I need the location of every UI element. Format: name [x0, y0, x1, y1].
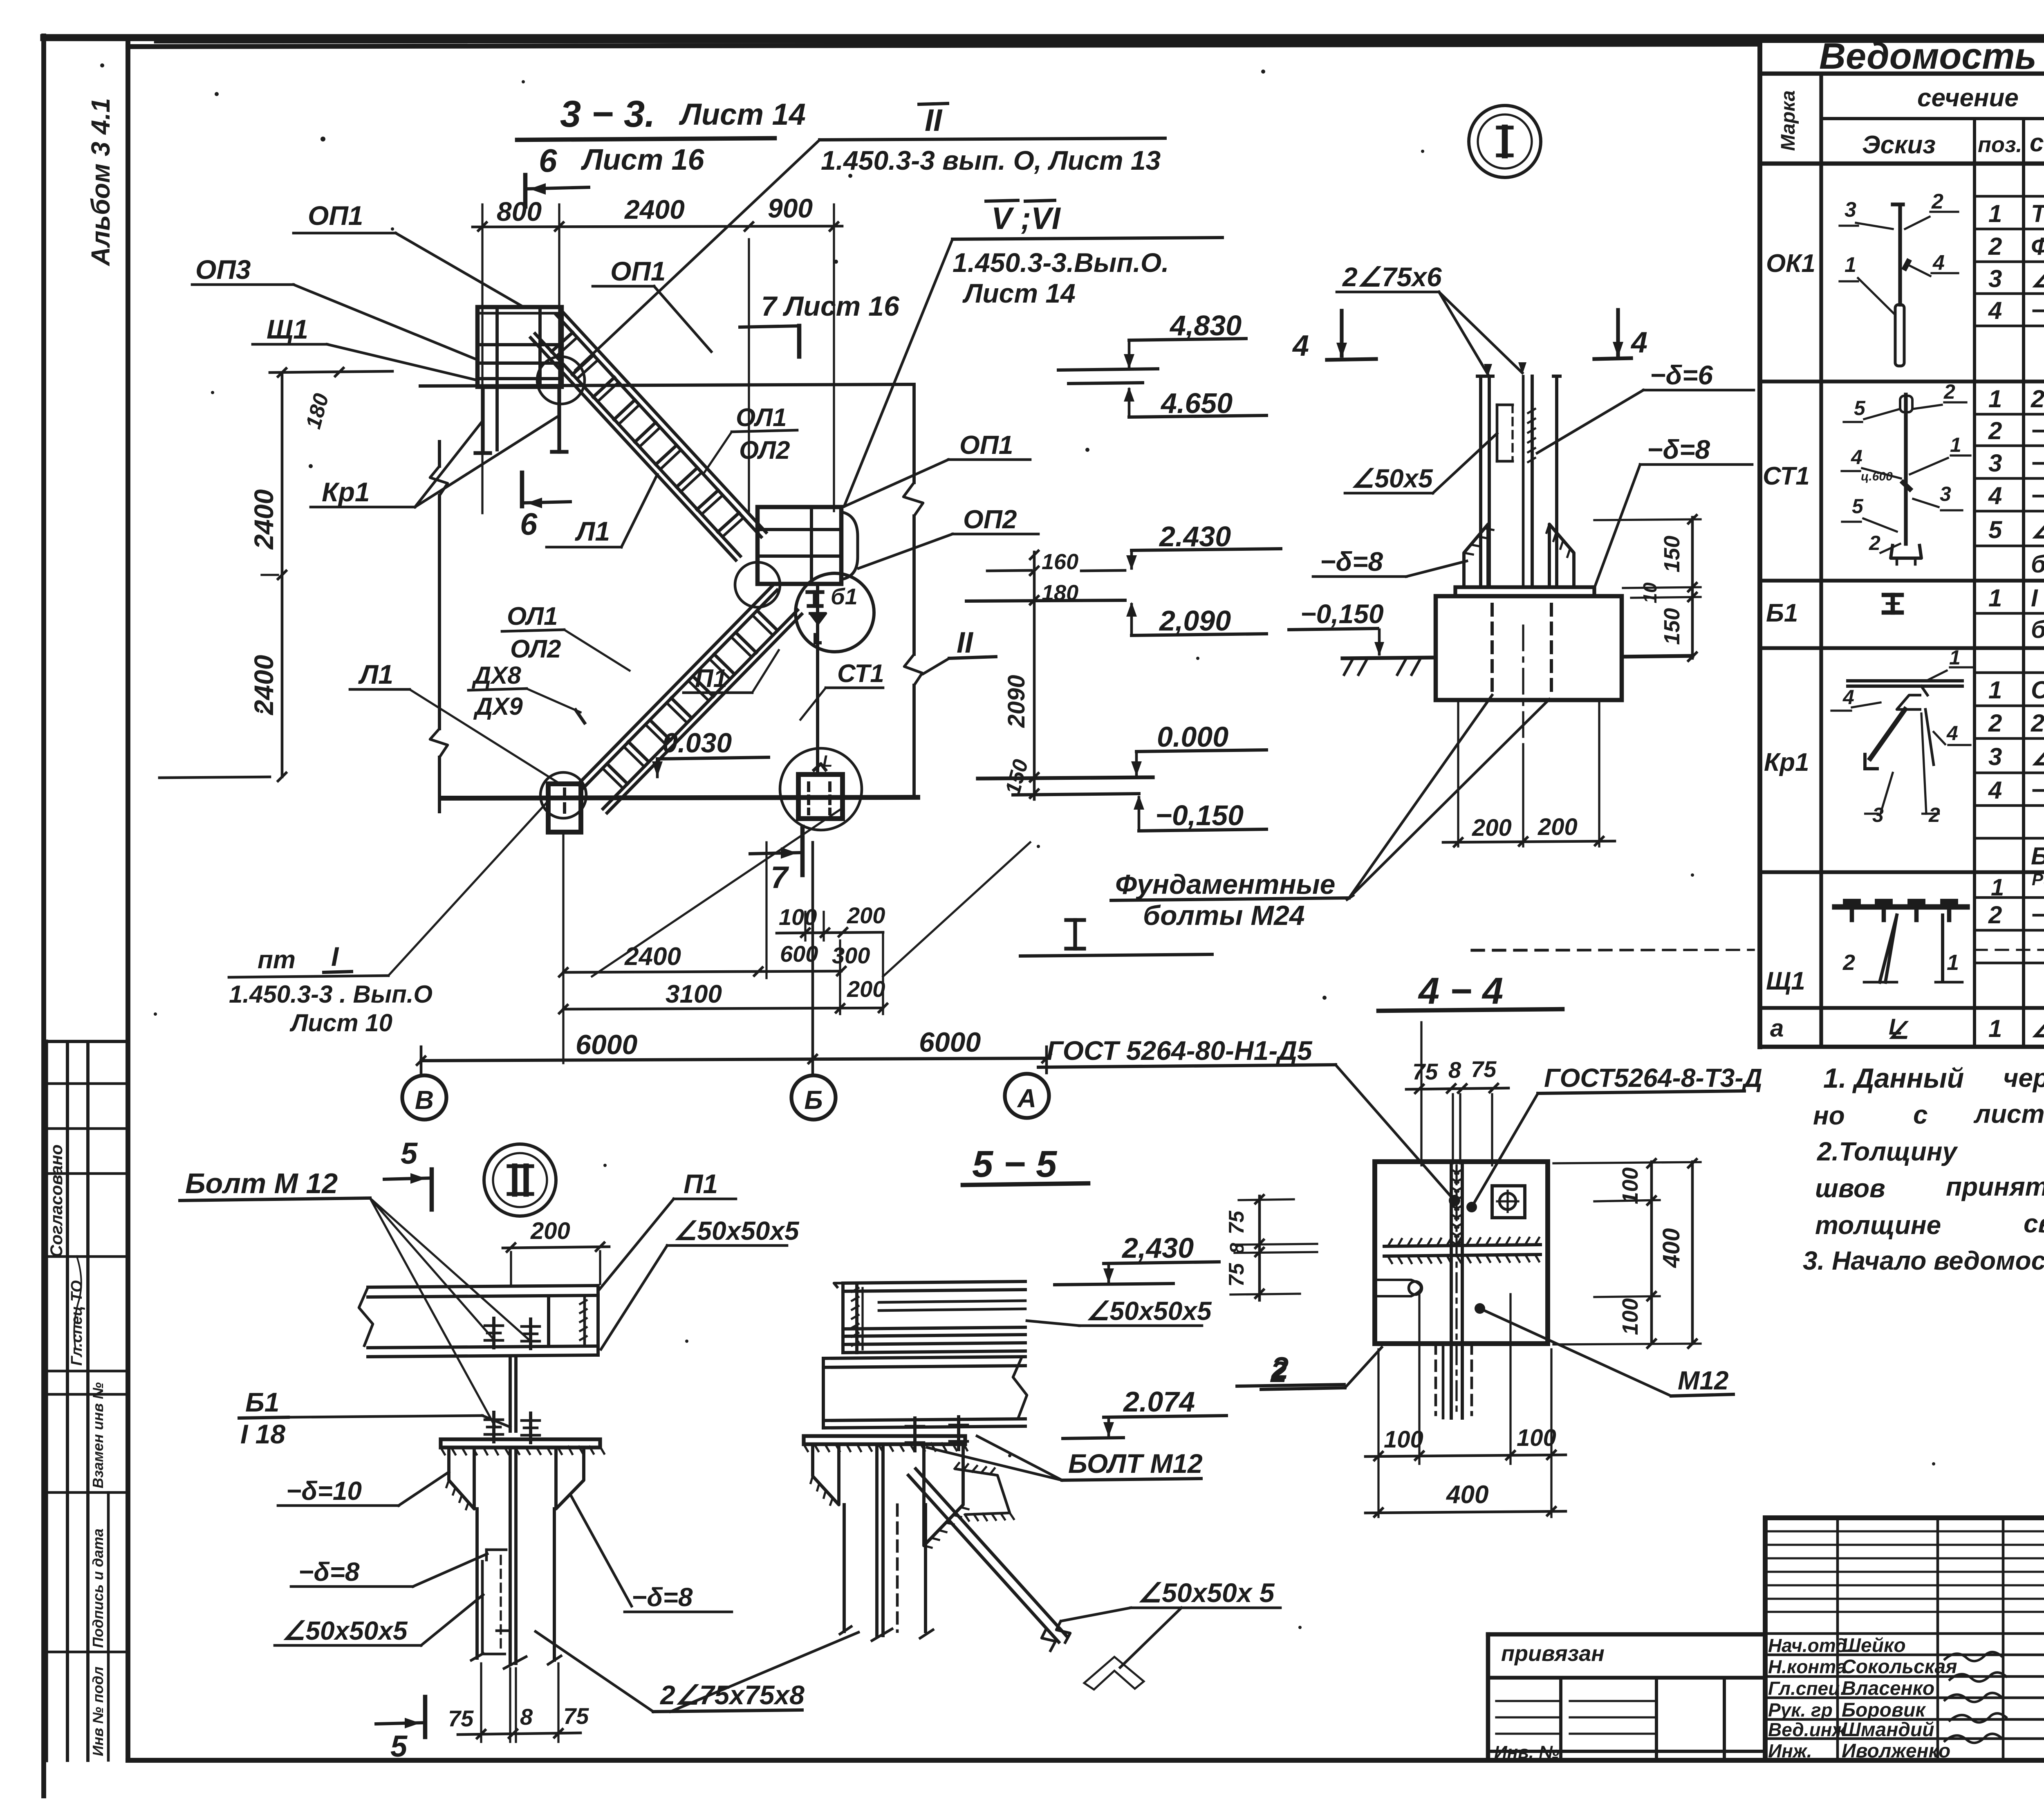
svg-text:1. Данный: 1. Данный — [1823, 1063, 1964, 1094]
svg-text:6: 6 — [539, 142, 557, 179]
svg-text:ГОСТ 5264-80-Н1-Д5: ГОСТ 5264-80-Н1-Д5 — [1047, 1035, 1313, 1066]
svg-text:Инж.: Инж. — [1768, 1740, 1812, 1762]
svg-text:−4х40: −4х40 — [2031, 297, 2044, 324]
svg-text:2400: 2400 — [249, 655, 279, 716]
top dimension row 800 2400 900 — [473, 226, 842, 227]
svg-text:2090: 2090 — [1003, 675, 1030, 728]
svg-text:Лист 10: Лист 10 — [289, 1009, 392, 1037]
svg-text:∠: ∠ — [1888, 1017, 1909, 1044]
svg-text:10: 10 — [1639, 582, 1661, 604]
svg-text:Альбом 3 4.1: Альбом 3 4.1 — [86, 98, 115, 267]
base plate section II — [441, 1439, 600, 1447]
svg-text:800: 800 — [497, 196, 542, 227]
svg-text:Власенко: Власенко — [1842, 1678, 1934, 1699]
sketch СТ1 — [1904, 395, 1907, 544]
svg-text:принять: принять — [1946, 1172, 2044, 1201]
header column lines — [1819, 74, 1823, 1047]
svg-text:3: 3 — [1845, 198, 1856, 222]
base plate 5-5 — [804, 1436, 965, 1444]
level line upper — [420, 384, 914, 386]
svg-text:Тр.Ду20: Тр.Ду20 — [2031, 200, 2044, 227]
svg-text:4,830: 4,830 — [1169, 310, 1242, 341]
leader II to platform — [576, 140, 820, 370]
svg-text:II: II — [957, 626, 974, 659]
svg-text:8: 8 — [1448, 1057, 1461, 1083]
svg-text:ОП1: ОП1 — [610, 256, 666, 286]
svg-text:0.000: 0.000 — [1157, 721, 1228, 753]
svg-text:В: В — [415, 1085, 434, 1115]
svg-text:СТ1: СТ1 — [1763, 462, 1810, 490]
svg-text:С 18: С 18 — [2031, 676, 2044, 704]
diagonal brace 5-5 — [908, 1475, 1059, 1642]
svg-text:4 − 4: 4 − 4 — [1418, 970, 1503, 1012]
section flag 6 top — [523, 175, 528, 206]
leaders to anchor bolts — [1349, 695, 1492, 898]
stair flight Л1 upper — [561, 310, 766, 532]
svg-text:2: 2 — [1842, 950, 1855, 975]
ground line plan — [442, 797, 918, 798]
svg-text:Сокольская: Сокольская — [1842, 1656, 1957, 1678]
scan outer border left — [41, 36, 46, 1796]
sheet inner frame — [128, 44, 1760, 47]
4-4 bottom dims — [1377, 1349, 1379, 1517]
left margin strip — [66, 1041, 69, 1760]
svg-text:ГОСТ5264-8-Т3-Д: ГОСТ5264-8-Т3-Д — [1544, 1063, 1762, 1093]
привязан table — [1488, 1632, 1765, 1637]
svg-text:ОП1: ОП1 — [959, 430, 1013, 460]
svg-text:2,090: 2,090 — [1159, 605, 1231, 637]
svg-text:100: 100 — [1517, 1425, 1556, 1451]
svg-text:I 18: I 18 — [240, 1419, 285, 1449]
svg-text:1: 1 — [1988, 1015, 2002, 1042]
gussets section II — [449, 1447, 474, 1509]
svg-text:L: L — [823, 752, 832, 770]
svg-text:Нач.отд.: Нач.отд. — [1768, 1635, 1852, 1656]
svg-text:5: 5 — [1854, 397, 1866, 420]
svg-text:200: 200 — [847, 976, 885, 1002]
svg-text:75: 75 — [448, 1706, 474, 1731]
svg-text:∠90х6: ∠90х6 — [2031, 743, 2044, 770]
svg-text:Вед.инж: Вед.инж — [1768, 1719, 1847, 1740]
svg-text:с: с — [1913, 1100, 1928, 1129]
bottom dims 75 8 75 section II — [480, 1663, 482, 1742]
svg-text:Рук. гр: Рук. гр — [1768, 1699, 1833, 1721]
4-4 right dims — [1650, 1162, 1653, 1344]
svg-text:−δ=6: −δ=6 — [1650, 360, 1713, 390]
dim extension verticals — [481, 204, 483, 513]
dashed line to table — [1472, 950, 1754, 951]
svg-text:болт М12: болт М12 — [2031, 616, 2044, 643]
б1 detail circle — [796, 573, 874, 652]
4-4 corner bolt box — [1492, 1186, 1525, 1218]
svg-text:6: 6 — [520, 507, 538, 542]
svg-text:75: 75 — [1225, 1210, 1248, 1234]
svg-text:3: 3 — [1988, 743, 2002, 770]
svg-text:П1: П1 — [684, 1169, 718, 1199]
svg-text:I 18: I 18 — [2031, 584, 2044, 612]
bottom anchor left — [548, 784, 581, 832]
svg-text:А: А — [1017, 1084, 1036, 1113]
svg-text:75: 75 — [1412, 1059, 1438, 1084]
svg-text:4: 4 — [1851, 446, 1862, 469]
svg-text:4: 4 — [1842, 686, 1854, 709]
treads upper flight — [551, 332, 573, 352]
svg-text:2400: 2400 — [624, 194, 685, 224]
svg-text:4: 4 — [1932, 251, 1945, 275]
svg-text:пт: пт — [258, 946, 296, 974]
left break line vertical — [438, 442, 441, 466]
svg-text:1.450.3-3 . Вып.О: 1.450.3-3 . Вып.О — [229, 981, 433, 1008]
weld ticks on column — [1528, 409, 1535, 413]
angle icon — [1084, 1657, 1144, 1690]
column 5-5 — [843, 1505, 846, 1631]
mid landing circle — [735, 562, 780, 607]
svg-text:Л1: Л1 — [575, 516, 610, 546]
svg-text:Болт М 12: Болт М 12 — [185, 1167, 338, 1199]
svg-text:ОЛ2: ОЛ2 — [510, 635, 561, 663]
svg-text:2: 2 — [1988, 901, 2002, 929]
column bottom breaks 5-5 — [839, 1626, 852, 1635]
svg-text:4: 4 — [1988, 482, 2002, 509]
svg-text:3: 3 — [1940, 482, 1951, 505]
ground line section I — [1342, 658, 1436, 658]
svg-text:болт М 12: болт М 12 — [2031, 550, 2044, 578]
svg-text:2: 2 — [1988, 417, 2002, 444]
svg-text:Подпись и дата: Подпись и дата — [90, 1528, 106, 1648]
svg-text:−δ=10: −δ=10 — [286, 1476, 362, 1506]
svg-text:2: 2 — [1271, 1351, 1289, 1386]
svg-text:2.Толщину: 2.Толщину — [1817, 1137, 1959, 1166]
svg-text:Б1: Б1 — [1766, 599, 1798, 627]
svg-text:2: 2 — [1869, 532, 1880, 554]
detail circle I — [1469, 105, 1541, 177]
svg-text:∠50х50х5: ∠50х50х5 — [282, 1616, 408, 1645]
svg-text:ОЛ1: ОЛ1 — [507, 602, 558, 631]
flag 5 bottom — [423, 1697, 428, 1737]
svg-text:300: 300 — [832, 943, 870, 968]
svg-text:∠50х5: ∠50х5 — [2031, 265, 2044, 292]
svg-text:200: 200 — [1472, 815, 1512, 841]
svg-text:−δ=8: −δ=8 — [2031, 776, 2044, 804]
svg-text:Согласовано: Согласовано — [47, 1144, 66, 1257]
svg-text:2,430: 2,430 — [1121, 1232, 1194, 1264]
row divider lines — [1975, 195, 2044, 198]
svg-text:0.030: 0.030 — [662, 727, 732, 759]
svg-text:−0,150: −0,150 — [1155, 799, 1244, 831]
4-4 gusset square — [1375, 1162, 1548, 1344]
svg-text:−δ=8: −δ=8 — [632, 1582, 693, 1612]
scan speckles — [100, 63, 104, 67]
name rows — [1765, 1632, 2044, 1635]
table header split line — [1821, 117, 2044, 120]
section flag 7 — [800, 827, 805, 875]
svg-text:Лист 16: Лист 16 — [580, 144, 705, 176]
svg-text:160: 160 — [1042, 550, 1078, 574]
scan outer border top band — [44, 34, 2044, 41]
svg-text:П1: П1 — [695, 664, 727, 693]
svg-text:2: 2 — [1988, 233, 2002, 260]
dims 200 200 below foundation — [1457, 700, 1459, 846]
svg-text:4: 4 — [1292, 330, 1309, 362]
svg-text:200: 200 — [1537, 814, 1578, 840]
svg-text:болты М24: болты М24 — [1143, 900, 1305, 931]
svg-text:толщине: толщине — [1815, 1210, 1941, 1240]
svg-text:5: 5 — [1852, 495, 1864, 518]
svg-text:ОП2: ОП2 — [963, 505, 1017, 534]
svg-text:−δ =10: −δ =10 — [2031, 417, 2044, 444]
svg-text:−4х40: −4х40 — [2031, 901, 2044, 929]
svg-text:100: 100 — [1618, 1298, 1643, 1335]
small angle on column — [486, 1548, 506, 1551]
svg-text:Гл.спец.: Гл.спец. — [1768, 1678, 1846, 1699]
data column lines — [1973, 164, 1976, 1047]
svg-text:б1: б1 — [831, 583, 858, 609]
svg-text:а: а — [1770, 1014, 1784, 1042]
title block thin top rows — [1765, 1530, 2044, 1532]
svg-text:400: 400 — [1658, 1228, 1685, 1268]
dims 75 8 75 right of 5-5 — [1258, 1196, 1261, 1300]
svg-text:СТ1: СТ1 — [837, 660, 884, 688]
table title underline row — [1760, 72, 2044, 76]
svg-text:100: 100 — [1384, 1426, 1423, 1453]
svg-text:6000: 6000 — [576, 1029, 637, 1060]
svg-text:3. Начало ведомости элементо: 3. Начало ведомости элементов см. лист 1… — [1803, 1246, 2044, 1275]
4-4 vertical post — [1450, 1162, 1453, 1418]
wall break line vertical — [912, 386, 916, 482]
svg-text:листами 14,16.: листами 14,16. — [1973, 1099, 2044, 1129]
treads lower flight — [757, 610, 778, 631]
column section II — [475, 1509, 479, 1658]
gussets section I — [1464, 524, 1488, 587]
svg-text:Гл.спец ТО: Гл.спец ТО — [68, 1280, 85, 1366]
svg-text:но: но — [1813, 1101, 1845, 1130]
svg-text:Лист 14: Лист 14 — [962, 278, 1076, 308]
svg-text:ОП3: ОП3 — [195, 254, 251, 285]
svg-text:400: 400 — [1446, 1481, 1488, 1509]
svg-text:∠50х50х5: ∠50х50х5 — [674, 1216, 800, 1245]
svg-text:200: 200 — [530, 1218, 570, 1244]
sketch Щ1 — [1835, 904, 1967, 909]
svg-text:100: 100 — [1618, 1167, 1643, 1204]
platform beam band 5-5 — [823, 1357, 1025, 1358]
svg-text:∠50х5: ∠50х5 — [2031, 516, 2044, 543]
svg-text:5 − 5: 5 − 5 — [972, 1143, 1058, 1185]
left cap 5-5 — [841, 1283, 845, 1353]
svg-text:V ;VI: V ;VI — [991, 201, 1061, 236]
svg-text:2∠75х6: 2∠75х6 — [1342, 262, 1442, 292]
svg-text:−δ=8: −δ=8 — [298, 1557, 360, 1587]
svg-text:75: 75 — [1225, 1263, 1248, 1287]
svg-text:3100: 3100 — [666, 980, 722, 1008]
sketch КР1 — [1848, 679, 1962, 682]
I-beam web section II — [509, 1356, 512, 1431]
svg-text:1.450.3-3.Вып.О.: 1.450.3-3.Вып.О. — [953, 247, 1169, 278]
svg-text:ОЛ1: ОЛ1 — [736, 404, 787, 432]
axis circle Б — [791, 1075, 836, 1120]
svg-text:2400: 2400 — [624, 943, 681, 971]
svg-text:Фундаментные: Фундаментные — [1115, 869, 1335, 900]
column lines СТ1 detail — [1479, 376, 1482, 587]
svg-text:150: 150 — [1660, 608, 1684, 645]
svg-text:Кр1: Кр1 — [1764, 748, 1809, 776]
gussets 5-5 — [813, 1444, 839, 1505]
dashed row line in Щ1 — [1472, 949, 1754, 951]
svg-text:1: 1 — [1845, 253, 1856, 277]
stringer band 5-5 — [843, 1281, 1025, 1283]
svg-text:2.430: 2.430 — [1159, 521, 1231, 552]
svg-text:состав: состав — [2030, 129, 2044, 157]
stair flight Л1 lower — [578, 586, 773, 784]
svg-text:Болт М12: Болт М12 — [2031, 842, 2044, 870]
svg-text:Инв. №: Инв. № — [1494, 1742, 1560, 1762]
svg-text:ОК1: ОК1 — [1766, 249, 1815, 278]
svg-text:Щ1: Щ1 — [267, 314, 308, 344]
title block left verticals — [1836, 1518, 1839, 1760]
axis circle А — [1005, 1074, 1049, 1118]
svg-text:Кр1: Кр1 — [322, 477, 370, 507]
sketch ОК1 — [1898, 206, 1902, 305]
svg-text:ДХ9: ДХ9 — [473, 693, 523, 720]
leaders from axis area — [388, 801, 548, 976]
svg-text:1: 1 — [1949, 646, 1961, 669]
svg-text:3 − 3.: 3 − 3. — [560, 93, 655, 135]
svg-text:Рифл. ст: Рифл. ст — [2032, 870, 2044, 889]
svg-text:II: II — [925, 103, 943, 138]
svg-text:2: 2 — [1928, 803, 1940, 826]
svg-text:∠50х5: ∠50х5 — [1351, 464, 1433, 493]
mid landing plan — [758, 507, 841, 584]
title block main outline — [1765, 1515, 2044, 1520]
sketch Б1 I-beam — [1884, 593, 1902, 597]
svg-text:∠50х50х5: ∠50х50х5 — [1086, 1296, 1212, 1326]
foundation block — [1436, 596, 1622, 700]
svg-text:2: 2 — [1931, 190, 1943, 213]
svg-text:6000: 6000 — [919, 1027, 981, 1058]
axis circle В — [402, 1075, 446, 1120]
svg-text:1: 1 — [1991, 874, 2004, 901]
table bottom — [1760, 1045, 2044, 1049]
4-4 left hook — [1375, 1280, 1421, 1296]
section divider lines — [1760, 379, 2044, 383]
4-4 bottom post below square — [1434, 1344, 1437, 1415]
svg-text:2∠75х6: 2∠75х6 — [2031, 709, 2044, 737]
svg-text:75: 75 — [1471, 1056, 1497, 1082]
svg-text:БОЛТ М12: БОЛТ М12 — [1068, 1448, 1203, 1479]
svg-text:−δ=8: −δ=8 — [1320, 546, 1383, 577]
table outer verticals — [1757, 39, 1762, 1047]
svg-text:5: 5 — [390, 1729, 408, 1763]
svg-text:100: 100 — [779, 904, 817, 930]
svg-text:М12: М12 — [1678, 1366, 1729, 1395]
svg-text:Щ1: Щ1 — [1766, 967, 1805, 995]
svg-text:свариваемых: свариваемых — [2024, 1209, 2044, 1238]
column bottom breaks — [470, 1653, 484, 1661]
bolts on beam — [492, 1318, 495, 1348]
svg-text:4: 4 — [1946, 722, 1958, 745]
svg-text:200: 200 — [847, 902, 885, 928]
svg-text:−8х100: −8х100 — [2031, 482, 2044, 509]
beam channel section II — [368, 1286, 598, 1287]
svg-text:2∠75х6: 2∠75х6 — [2031, 385, 2044, 413]
platform corner circle — [537, 357, 585, 404]
svg-text:7 Лист 16: 7 Лист 16 — [761, 291, 900, 322]
svg-text:8: 8 — [520, 1704, 533, 1730]
svg-text:5: 5 — [1988, 516, 2003, 543]
svg-text:привязан: привязан — [1501, 1641, 1605, 1666]
base plate section I — [1455, 587, 1594, 596]
svg-text:∠50х50х 5: ∠50х50х 5 — [1138, 1578, 1275, 1608]
svg-text:Лист 14: Лист 14 — [679, 97, 806, 131]
svg-text:Инв № подл: Инв № подл — [90, 1667, 106, 1756]
svg-text:1: 1 — [1950, 433, 1961, 456]
svg-text:1: 1 — [1988, 200, 2002, 227]
signatures — [1944, 1652, 2002, 1661]
СТ1 axis line — [816, 586, 819, 774]
svg-text:2: 2 — [1943, 380, 1955, 403]
detail circle II — [484, 1144, 556, 1216]
svg-text:2400: 2400 — [249, 489, 279, 550]
table header bottom — [1760, 162, 2044, 166]
svg-text:1: 1 — [1988, 584, 2002, 612]
svg-text:2: 2 — [1988, 709, 2002, 737]
svg-text:Б1: Б1 — [245, 1387, 279, 1417]
section mark I bottom — [1066, 918, 1084, 922]
inner angle L50x5 dashed — [1496, 405, 1499, 461]
svg-text:−δ=8: −δ=8 — [1647, 434, 1710, 465]
svg-text:2.074: 2.074 — [1123, 1386, 1195, 1418]
svg-text:900: 900 — [768, 193, 813, 223]
svg-text:4.650: 4.650 — [1160, 387, 1233, 419]
svg-text:чертеж: чертеж — [2003, 1063, 2044, 1093]
svg-text:Ведомость: Ведомость — [1819, 36, 2037, 77]
svg-text:Боровик: Боровик — [1842, 1699, 1926, 1721]
svg-text:ОП1: ОП1 — [308, 200, 363, 231]
svg-text:3: 3 — [1988, 265, 2002, 292]
svg-text:5: 5 — [401, 1136, 418, 1170]
svg-text:ОЛ2: ОЛ2 — [739, 436, 790, 465]
svg-text:1: 1 — [1988, 676, 2002, 704]
svg-text:4: 4 — [1988, 776, 2002, 804]
svg-text:1: 1 — [1988, 385, 2002, 413]
svg-text:3: 3 — [1988, 449, 2002, 477]
svg-text:ДХ8: ДХ8 — [471, 662, 521, 689]
svg-text:1: 1 — [1947, 950, 1959, 975]
svg-text:Ф20: Ф20 — [2031, 233, 2044, 260]
anchor right СТ1 base — [798, 774, 843, 819]
svg-text:∠50х5: ∠50х5 — [2031, 1015, 2044, 1042]
svg-text:Марка: Марка — [1777, 90, 1799, 151]
upper platform plan — [477, 307, 562, 387]
svg-text:Б: Б — [804, 1085, 823, 1115]
svg-text:Иволженко: Иволженко — [1842, 1740, 1950, 1762]
svg-text:150: 150 — [1660, 536, 1684, 572]
dims 150 10 150 right — [1691, 517, 1694, 658]
axis lines to circles — [420, 1047, 423, 1075]
left vertical dims 2400/2400 — [281, 373, 284, 777]
svg-text:75: 75 — [563, 1703, 589, 1729]
svg-text:Шейко: Шейко — [1842, 1635, 1906, 1656]
4-4 horizontal rail — [1384, 1245, 1540, 1246]
svg-text:−δ=8: −δ=8 — [2031, 449, 2044, 477]
svg-text:1.450.3-3 вып. О, Лист 13: 1.450.3-3 вып. О, Лист 13 — [821, 145, 1161, 175]
bolts 5-5 — [913, 1418, 917, 1451]
platform legs — [481, 387, 484, 453]
svg-text:4: 4 — [1988, 297, 2002, 324]
svg-text:7: 7 — [771, 860, 789, 895]
svg-text:−0,150: −0,150 — [1300, 599, 1384, 629]
svg-text:Эскиз: Эскиз — [1862, 131, 1936, 159]
svg-text:швов: швов — [1815, 1174, 1885, 1203]
